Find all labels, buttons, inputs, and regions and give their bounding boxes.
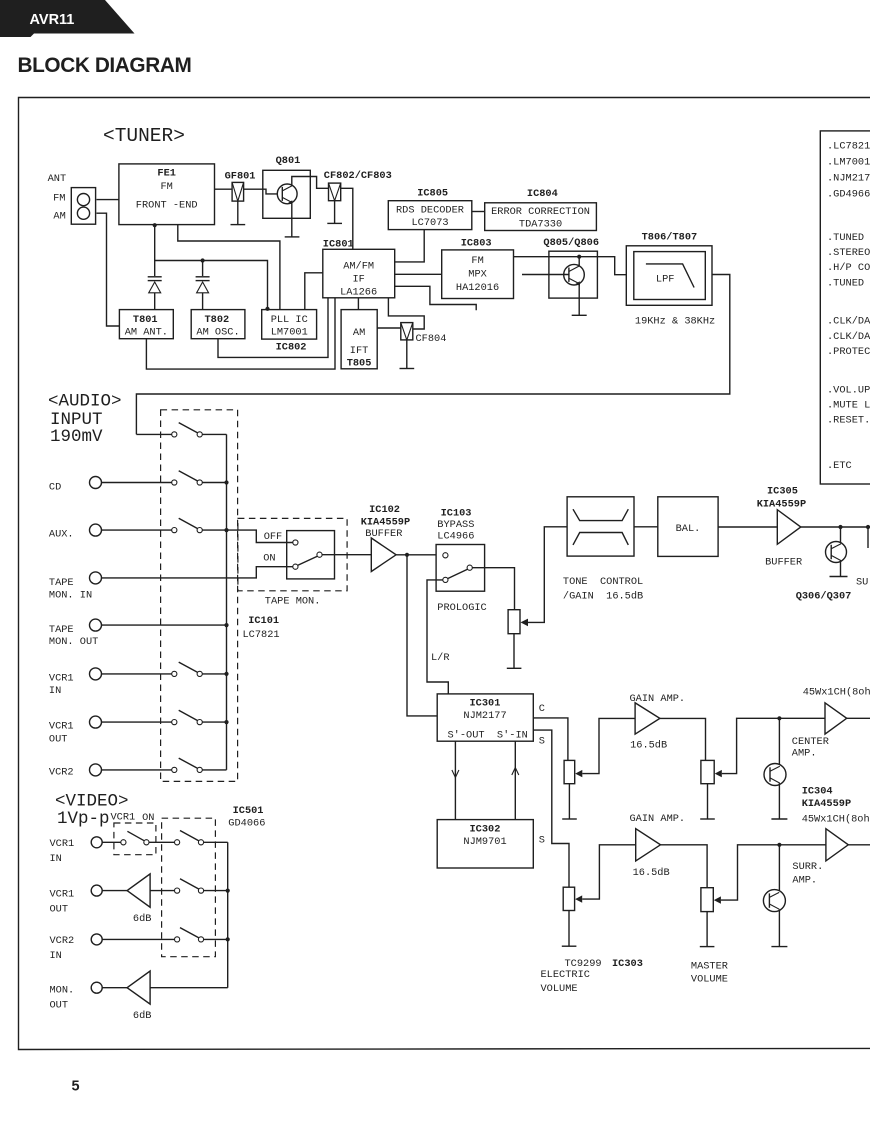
svg-text:AM/FM: AM/FM [343, 260, 374, 272]
control signal list box [820, 131, 870, 484]
svg-text:VCR2: VCR2 [50, 935, 75, 947]
wire relay to IC501 switch [149, 841, 175, 843]
wire Q801 collector to CF802 [292, 177, 329, 189]
wire IC801 to T805 [357, 298, 359, 310]
svg-text:IF: IF [353, 273, 365, 285]
svg-text:BLOCK DIAGRAM: BLOCK DIAGRAM [18, 54, 192, 77]
svg-text:MON. OUT: MON. OUT [49, 636, 98, 648]
svg-text:TONE CONTROL: TONE CONTROL [563, 576, 643, 588]
svg-text:190mV: 190mV [50, 427, 103, 447]
wire S'-OUT arrow [452, 741, 459, 819]
svg-text:MON.: MON. [50, 985, 75, 997]
svg-text:.H/P CON: .H/P CON [827, 262, 870, 274]
wire VCR2 switch to bus [202, 769, 226, 771]
wire C pot to ground [568, 784, 570, 819]
svg-text:6dB: 6dB [133, 1010, 152, 1022]
wire gain pot to ground [513, 634, 515, 669]
ground below gain pot [507, 667, 522, 669]
wire IC301 C output to pot [533, 718, 568, 761]
op-amp buffer IC305 [777, 510, 801, 545]
svg-text:<AUDIO>: <AUDIO> [48, 391, 122, 411]
wire IC301 S output to surround pot [533, 730, 569, 887]
svg-text:IC302: IC302 [470, 824, 501, 836]
wire PLL IC to IC801 [305, 273, 323, 310]
svg-text:.TUNED C: .TUNED C [827, 277, 870, 289]
ground below center mute [771, 818, 787, 820]
svg-text:S: S [539, 835, 545, 847]
svg-text:OUT: OUT [49, 733, 68, 745]
wire master S wiper to surround amp [721, 845, 826, 900]
svg-text:ON: ON [263, 552, 275, 564]
svg-text:S: S [539, 736, 545, 748]
svg-text:FE1: FE1 [157, 168, 176, 180]
svg-text:IC804: IC804 [527, 188, 558, 200]
AM IFT T805 [341, 310, 377, 370]
wire tuner row to switch [136, 433, 171, 435]
junction dot VCR1 IN bus [224, 672, 228, 676]
jack VCR1 OUT video [91, 885, 102, 896]
svg-text:.GD4966: .GD4966 [827, 189, 870, 201]
ground below master C pot [700, 818, 715, 820]
antenna connector J1 [71, 188, 95, 225]
svg-text:16.5dB: 16.5dB [630, 739, 667, 751]
jack MON OUT [91, 982, 102, 993]
svg-text:VCR1: VCR1 [111, 812, 136, 824]
svg-text:.NJM2177: .NJM2177 [827, 173, 870, 185]
op-amp gain amp S [636, 829, 661, 861]
svg-text:Q306/Q307: Q306/Q307 [796, 591, 852, 603]
junction dot Q805 collector [577, 255, 581, 259]
ceramic filter GF801 [225, 171, 256, 202]
junction dot VCR1 OUT video bus [226, 889, 230, 893]
svg-text:IC803: IC803 [461, 238, 492, 250]
selector IC501 dashed box [162, 818, 216, 957]
svg-text:IC805: IC805 [417, 188, 448, 200]
PLL IC LM7001 [262, 310, 317, 340]
switch VCR1 relay [121, 831, 149, 845]
selector IC101 dashed box [161, 410, 238, 782]
wire IC801 to RDS decoder [395, 230, 425, 262]
transistor Q801 [263, 155, 311, 218]
junction dot varicap rail T802 [201, 258, 205, 262]
jack CD [90, 477, 102, 489]
svg-text:MON. IN: MON. IN [49, 589, 92, 601]
ceramic filter CF802/CF803 [324, 170, 392, 201]
svg-text:.PROTECT: .PROTECT [827, 346, 870, 358]
potentiometer gain [508, 610, 528, 634]
svg-text:.CLK/DAT: .CLK/DAT [827, 331, 870, 343]
error correction TDA7330 [485, 203, 597, 231]
wire tape monitor switch to IC102 [322, 554, 371, 556]
svg-text:L/R: L/R [431, 652, 450, 664]
wire IC305 output [801, 526, 870, 528]
svg-text:FM: FM [53, 193, 65, 205]
ground below master S pot [700, 946, 715, 948]
junction dot VCR1 OUT bus [224, 720, 228, 724]
svg-text:5: 5 [72, 1079, 80, 1095]
wire VCR1 IN switch to bus [202, 673, 226, 675]
jack TAPE MON OUT [90, 619, 102, 631]
svg-text:GAIN AMP.: GAIN AMP. [630, 693, 686, 705]
ground below Q801 [285, 236, 300, 238]
svg-text:AUX.: AUX. [49, 529, 74, 541]
wire FM antenna to FE1 [97, 199, 119, 201]
wire amp to VCR1 OUT switch [150, 890, 174, 892]
wire VCR1 OUT jack to switch [102, 721, 172, 723]
svg-text:.LC7821: .LC7821 [827, 140, 870, 152]
surround processor IC302 [437, 820, 533, 868]
wire VCR1 OUT switch to video bus [204, 890, 228, 892]
svg-text:.ETC: .ETC [827, 460, 852, 472]
svg-text:TAPE MON.: TAPE MON. [265, 596, 321, 608]
wire master C wiper to center amp [722, 718, 825, 773]
svg-text:45Wx1CH(8ohm): 45Wx1CH(8ohm) [802, 814, 870, 826]
VCR1 relay dashed box [114, 823, 156, 855]
wire AM antenna to T801 [97, 213, 120, 326]
svg-text:.RESET.: .RESET. [827, 414, 870, 426]
junction dot IC305 output [838, 525, 842, 529]
switch AUX [172, 518, 203, 532]
svg-text:CF804: CF804 [416, 333, 447, 345]
svg-text:FM: FM [161, 181, 173, 193]
switch VCR1 IN audio [172, 662, 203, 676]
svg-text:CD: CD [49, 482, 61, 494]
wire input select bus [226, 434, 228, 770]
switch VCR2 audio [172, 758, 203, 772]
svg-text:AMP.: AMP. [792, 874, 817, 886]
transistor Q805 [549, 251, 598, 298]
wire T805 to CF804 [377, 327, 401, 329]
svg-text:AM: AM [353, 327, 365, 339]
node TAPE MON IN label [49, 577, 92, 602]
svg-text:KIA4559P: KIA4559P [361, 516, 410, 528]
svg-text:1Vp-p: 1Vp-p [57, 809, 110, 829]
wire FM MPX to LPF [514, 257, 627, 275]
svg-text:VCR1: VCR1 [50, 889, 75, 901]
ground below GF801 [231, 201, 246, 225]
svg-text:S'-OUT S'-IN: S'-OUT S'-IN [448, 730, 528, 742]
wire TAPE MON IN to ON contact [102, 567, 293, 578]
label CENTER AMP. [792, 736, 829, 759]
wire Q801 emitter [291, 202, 293, 237]
svg-text:.MUTE L: .MUTE L [827, 399, 870, 411]
svg-text:45Wx1CH(8ohm): 45Wx1CH(8ohm) [803, 687, 870, 699]
jack TAPE MON IN [90, 572, 102, 584]
node VCR2 IN video label [50, 935, 75, 962]
switch VCR2 IN video [175, 928, 204, 942]
wire tuner row to bus [202, 433, 226, 435]
wire RDS to error correction [472, 211, 485, 213]
svg-text:IC101: IC101 [248, 615, 279, 627]
wire CD jack to switch [102, 482, 172, 484]
transformer T802 [191, 310, 245, 339]
jack VCR2 audio [90, 764, 102, 776]
wire IC102 to IC103 [396, 554, 436, 556]
svg-text:IC304: IC304 [802, 786, 833, 798]
svg-text:.LM7001: .LM7001 [827, 157, 870, 169]
switch VCR1 OUT video [175, 879, 204, 893]
svg-text:NJM9701: NJM9701 [463, 836, 506, 848]
svg-text:VCR1: VCR1 [49, 672, 74, 684]
svg-text:IN: IN [50, 853, 62, 865]
FM MPX HA12016 [442, 250, 514, 299]
potentiometer master volume C [701, 760, 722, 783]
svg-text:ELECTRIC: ELECTRIC [541, 969, 590, 981]
wire T802 to IC801 [218, 298, 328, 358]
transistor Q306/Q307 [826, 527, 847, 577]
wire AUX switch to bus [202, 529, 226, 531]
wire video bus to MON OUT amp [150, 987, 228, 989]
wire video bus [227, 842, 229, 987]
svg-text:/GAIN 16.5dB: /GAIN 16.5dB [563, 591, 643, 603]
svg-text:VOLUME: VOLUME [541, 983, 578, 995]
svg-text:OFF: OFF [264, 531, 283, 543]
svg-text:LM7001: LM7001 [271, 326, 308, 338]
wire master C pot to ground [707, 784, 709, 819]
svg-text:SU: SU [856, 577, 868, 589]
wire S pot to ground [568, 911, 570, 947]
svg-text:PROLOGIC: PROLOGIC [437, 602, 486, 614]
jack VCR1 IN audio [90, 668, 102, 680]
svg-text:TAPE: TAPE [49, 624, 74, 636]
svg-text:VCR2: VCR2 [49, 767, 74, 779]
svg-text:FRONT -END: FRONT -END [136, 199, 198, 211]
svg-text:AM OSC.: AM OSC. [196, 326, 239, 338]
svg-text:ON: ON [142, 812, 154, 824]
wire LPF output to audio input [136, 275, 729, 435]
junction dot FE1 bottom pin [153, 223, 157, 227]
ground below Q306 [830, 576, 848, 578]
svg-text:Q805/Q806: Q805/Q806 [543, 237, 599, 249]
wire FE1 to varicap rail [154, 225, 156, 261]
svg-text:ANT: ANT [48, 173, 67, 185]
svg-text:LA1266: LA1266 [340, 286, 377, 298]
svg-text:LC4966: LC4966 [437, 531, 474, 543]
wire S'-IN arrow [512, 741, 519, 819]
svg-text:AMP.: AMP. [792, 748, 817, 760]
ground below C pot [562, 818, 577, 820]
AM/FM IF IC801 [323, 249, 395, 298]
svg-text:FM: FM [471, 255, 483, 267]
junction dot page edge [866, 525, 870, 529]
op-amp gain amp C [635, 703, 660, 734]
svg-text:Q801: Q801 [276, 155, 301, 167]
wire VCR2 IN jack to switch [102, 938, 174, 940]
svg-text:19KHz & 38KHz: 19KHz & 38KHz [635, 315, 715, 327]
ceramic filter CF804 [401, 323, 447, 345]
wire MON OUT jack to amp [102, 987, 127, 989]
junction dot CD bus [224, 480, 228, 484]
junction dot surround branch [777, 843, 781, 847]
svg-text:GF801: GF801 [225, 171, 256, 183]
wire GF801 to Q801 base [244, 189, 278, 194]
junction dot VCR2 IN video bus [226, 937, 230, 941]
svg-text:VCR1: VCR1 [50, 838, 75, 850]
wire IC801 to FM DET [395, 286, 477, 310]
svg-text:IC301: IC301 [470, 698, 501, 710]
AVR11 header banner [0, 0, 135, 37]
ground below CF804 [400, 340, 415, 369]
varicap diode D1 [148, 261, 162, 310]
junction dot AUX bus [224, 528, 228, 532]
wire IC103 output to gain pot [472, 568, 514, 610]
svg-text:T801: T801 [133, 314, 158, 326]
svg-text:IC303: IC303 [612, 958, 643, 970]
transistor surround mute [763, 845, 785, 947]
svg-text:AM: AM [53, 210, 65, 222]
wire Q805 collector [578, 257, 580, 266]
svg-text:.TUNED L: .TUNED L [827, 232, 870, 244]
potentiometer master volume S [701, 888, 721, 912]
svg-text:RDS DECODER: RDS DECODER [396, 205, 464, 217]
wire surround amp output [848, 844, 870, 846]
wire balance to IC305 [718, 526, 777, 528]
bypass switch IC103 [436, 545, 485, 592]
svg-text:T802: T802 [205, 314, 230, 326]
wire bus to OFF contact [227, 530, 293, 542]
potentiometer electric volume C [564, 760, 582, 783]
node VCR1 OUT audio label [49, 721, 74, 746]
label MASTER VOLUME [691, 960, 728, 985]
svg-text:LC7073: LC7073 [412, 217, 449, 229]
label SURR. AMP. [792, 861, 823, 886]
label ELECTRIC VOLUME [541, 969, 590, 995]
svg-text:CENTER: CENTER [792, 736, 829, 748]
svg-text:C: C [539, 703, 545, 715]
svg-text:.CLK/DAT: .CLK/DAT [827, 316, 870, 328]
svg-text:KIA4559P: KIA4559P [802, 798, 851, 810]
wire varicap rail to PLL IC [155, 261, 268, 310]
svg-text:6dB: 6dB [133, 913, 152, 925]
wire FE1 second output to PLL IC [178, 225, 280, 310]
svg-text:BYPASS: BYPASS [437, 519, 474, 531]
svg-text:IC802: IC802 [276, 342, 307, 354]
op-amp center amp [825, 703, 847, 734]
wire IC801 to CF804 [388, 298, 424, 329]
svg-text:ERROR CORRECTION: ERROR CORRECTION [491, 206, 590, 218]
svg-text:OUT: OUT [50, 1000, 69, 1012]
wire IC801 to FM MPX [395, 273, 442, 275]
svg-text:PLL IC: PLL IC [271, 314, 308, 326]
svg-text:IC305: IC305 [767, 486, 798, 498]
wire tone control to balance [634, 526, 658, 528]
svg-text:BAL.: BAL. [676, 523, 701, 535]
wire gain amp S to master volume [661, 845, 708, 888]
tape monitor switch box [287, 531, 335, 579]
video amp 6dB MON OUT [127, 971, 150, 1004]
svg-text:MPX: MPX [468, 268, 487, 280]
svg-text:.VOL.UP/: .VOL.UP/ [827, 385, 870, 397]
svg-text:IFT: IFT [350, 345, 369, 357]
op-amp buffer IC102 [371, 538, 396, 572]
wire VCR1 IN switch to video bus [204, 841, 228, 843]
RDS decoder LC7073 [388, 201, 472, 230]
low pass filter T806/T807 [626, 246, 712, 305]
wire IC103 lower contact to IC301 L/R [427, 580, 448, 694]
switch VCR1 OUT audio [172, 710, 203, 724]
svg-text:IC103: IC103 [441, 508, 472, 520]
svg-text:AVR11: AVR11 [30, 12, 75, 28]
wire TAPE MON OUT to bus [102, 624, 227, 626]
junction dot IC102 output [405, 553, 409, 557]
svg-text:LPF: LPF [656, 274, 675, 286]
wire center amp output [847, 717, 870, 719]
surround decoder IC301 [437, 694, 533, 742]
svg-text:CF802/CF803: CF802/CF803 [324, 170, 392, 182]
svg-text:16.5dB: 16.5dB [633, 867, 670, 879]
wire VCR1 OUT switch to bus [202, 721, 226, 723]
wire FE1 to GF801 [215, 188, 233, 190]
wire VCR2 jack to switch [102, 769, 172, 771]
node VCR1 IN audio label [49, 672, 74, 697]
balance box BAL [658, 497, 718, 557]
wire C pot wiper to gain amp [582, 718, 635, 773]
svg-text:GAIN AMP.: GAIN AMP. [630, 813, 686, 825]
junction dot TAPE MON OUT bus [224, 623, 228, 627]
ground below S pot [562, 945, 577, 947]
switch VCR1 IN video [175, 831, 204, 845]
switch tuner row [172, 423, 203, 437]
ground below surround mute [771, 946, 787, 948]
wire CD switch to bus [202, 482, 226, 484]
node VCR1 OUT video label [50, 889, 75, 916]
wire stub to Q805 base [522, 274, 569, 276]
tape monitor dashed box [238, 518, 347, 590]
svg-text:GD4066: GD4066 [228, 817, 265, 829]
ground below CF802 [327, 201, 342, 224]
node TAPE MON OUT label [49, 624, 98, 648]
wire AUX jack to switch [102, 529, 172, 531]
svg-text:IN: IN [50, 950, 62, 962]
wire VCR1 IN jack to relay [102, 841, 121, 843]
svg-text:BUFFER: BUFFER [765, 557, 802, 569]
wire VCR1 OUT jack to amp [102, 890, 127, 892]
wire VCR1 IN jack to switch [102, 673, 172, 675]
wire VCR2 IN switch to video bus [204, 938, 228, 940]
wire T801 to IC801 [146, 298, 335, 369]
wire gain pot wiper to tone control [528, 527, 567, 623]
svg-text:HA12016: HA12016 [456, 282, 499, 294]
node MON OUT label [50, 985, 75, 1012]
junction dot center branch [777, 716, 781, 720]
jack VCR1 OUT audio [90, 716, 102, 728]
svg-text:MASTER: MASTER [691, 960, 728, 972]
switch CD [172, 471, 203, 485]
svg-text:LC7821: LC7821 [243, 629, 280, 641]
jack VCR1 IN video [91, 837, 102, 848]
tone control box [567, 497, 634, 556]
svg-text:T806/T807: T806/T807 [642, 232, 698, 244]
svg-text:IC501: IC501 [233, 805, 264, 817]
potentiometer electric volume S [563, 887, 582, 910]
svg-text:AM ANT.: AM ANT. [125, 326, 168, 338]
jack AUX [90, 524, 102, 536]
svg-text:SURR.: SURR. [792, 861, 823, 873]
svg-text:IC102: IC102 [369, 504, 400, 516]
svg-text:<TUNER>: <TUNER> [103, 125, 185, 147]
wire Q805 emitter [578, 284, 580, 316]
svg-text:NJM2177: NJM2177 [463, 710, 506, 722]
wire page edge stub [867, 527, 869, 548]
ground below Q805 [572, 314, 587, 316]
svg-text:TDA7330: TDA7330 [519, 219, 562, 231]
svg-text:T805: T805 [347, 357, 372, 369]
wire S pot wiper to gain amp [582, 845, 636, 899]
wire CF802 to IC801 [341, 188, 353, 249]
svg-text:KIA4559P: KIA4559P [757, 499, 806, 511]
front end FE1 [119, 164, 215, 225]
junction dot PLL IC top [265, 307, 269, 311]
